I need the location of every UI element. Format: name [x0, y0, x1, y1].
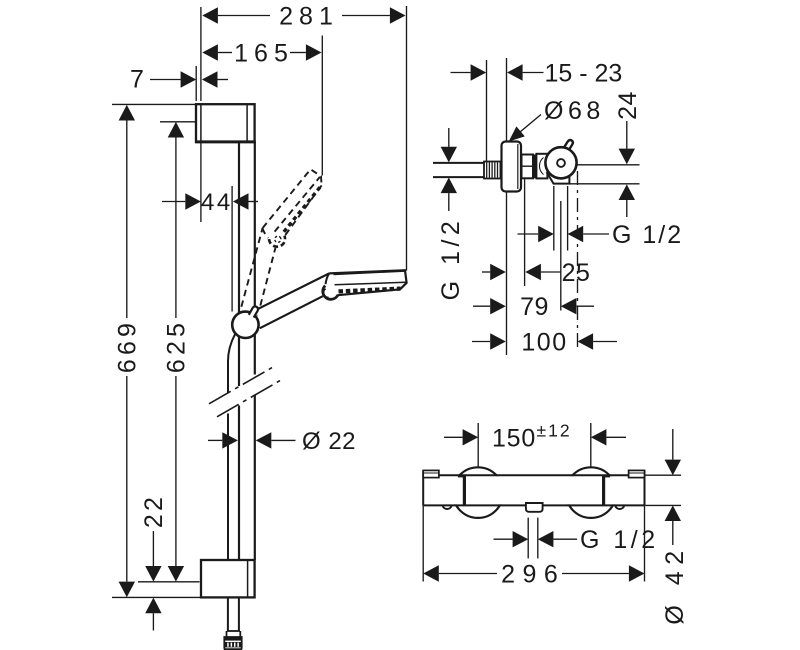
svg-text:±12: ±12 [537, 421, 572, 441]
svg-text:100: 100 [521, 329, 567, 357]
svg-text:G 1/2: G 1/2 [612, 221, 683, 249]
svg-text:150: 150 [492, 424, 536, 452]
svg-text:625: 625 [163, 319, 191, 373]
svg-text:G 1/2: G 1/2 [437, 217, 465, 301]
svg-text:79: 79 [520, 293, 549, 321]
svg-text:165: 165 [234, 40, 294, 68]
svg-text:Ø 42: Ø 42 [661, 544, 689, 624]
svg-text:25: 25 [562, 259, 591, 287]
svg-text:669: 669 [113, 319, 141, 373]
svg-text:281: 281 [279, 3, 339, 31]
svg-text:15 - 23: 15 - 23 [545, 60, 623, 88]
svg-text:G 1/2: G 1/2 [580, 526, 659, 554]
svg-text:296: 296 [501, 561, 565, 589]
svg-text:Ø68: Ø68 [544, 97, 605, 125]
svg-text:7: 7 [130, 66, 144, 94]
svg-text:44: 44 [201, 189, 233, 216]
svg-text:22: 22 [140, 494, 168, 528]
svg-text:Ø 22: Ø 22 [302, 428, 356, 455]
svg-text:24: 24 [614, 91, 642, 120]
